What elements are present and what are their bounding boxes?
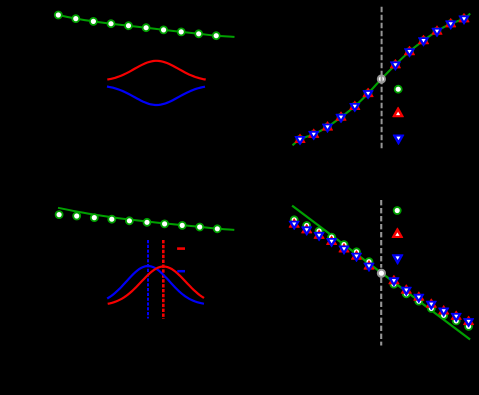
top-left red peak curve [107, 61, 205, 80]
bottom-right green straight line [292, 206, 470, 340]
bottom-left legend red line sample [177, 247, 185, 250]
bottom-right gray dashed vertical line (lower part) [380, 278, 382, 346]
top-left green circle markers [55, 12, 220, 40]
bottom-left red gaussian curve [108, 267, 204, 304]
bottom-left legend blue line sample [177, 270, 185, 273]
bottom-left blue dashed vertical line [147, 240, 149, 319]
top-right legend green circle [395, 86, 402, 93]
bottom-right legend red up triangle [392, 228, 403, 237]
bottom-right legend green circle [394, 207, 401, 214]
top-right green sigmoid curve [293, 14, 471, 146]
top-left green data line [55, 15, 235, 37]
bottom-left green data line [58, 208, 234, 230]
top-right legend blue down triangle [393, 135, 404, 144]
bottom-left green circle markers [56, 211, 221, 232]
top-right data point clusters (green circle + red up + blue down) [295, 134, 305, 145]
top-right legend red up triangle [393, 107, 404, 116]
bottom-left blue gaussian curve [107, 266, 204, 304]
bottom-left red dashed vertical line [162, 240, 165, 319]
top-right gray dashed vertical line [381, 7, 383, 150]
bottom-right gray dashed vertical line (upper part) [380, 200, 382, 268]
bottom-right gray circle marker at crossing [378, 270, 385, 277]
top-left blue dip curve [107, 87, 205, 106]
bottom-right legend blue down triangle [392, 255, 403, 264]
top-right gray circle marker at crossing [378, 75, 385, 82]
bottom-right data point clusters (green circle + red up + blue down) [289, 216, 299, 229]
top-right gray dash segment over circle core [381, 74, 383, 84]
